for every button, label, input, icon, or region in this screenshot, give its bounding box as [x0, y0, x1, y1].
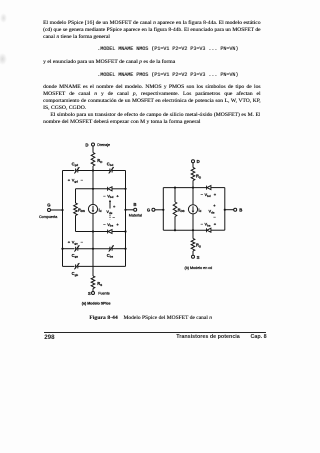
wire box to RS (right) [192, 230, 194, 238]
diode Dbs (bulk-source) [108, 230, 112, 234]
label -Vbd+ [103, 193, 119, 199]
wire box top line (right circuit) [163, 187, 225, 189]
svg-text:−: − [103, 193, 106, 198]
capacitor Cgs [72, 245, 80, 258]
capacitor Cgb [72, 263, 80, 277]
label Compuerta [39, 215, 58, 219]
svg-text:+: + [68, 178, 71, 183]
svg-text:Material: Material [129, 214, 142, 218]
paragraph line 2 [43, 27, 261, 34]
svg-text:RD: RD [97, 158, 102, 164]
svg-text:+: + [213, 203, 216, 208]
svg-text:+: + [68, 240, 71, 245]
paragraph line 9 [50, 112, 260, 119]
current source Id (left circuit) [88, 204, 101, 213]
node S (source terminal, left circuit) [88, 291, 95, 296]
wire d' down to current source [92, 171, 94, 205]
svg-text:−: − [214, 214, 217, 219]
label -Vbs+ (right) [201, 222, 217, 228]
svg-text:(a) Modelo SPice: (a) Modelo SPice [82, 301, 111, 305]
label -Vbs+ [103, 222, 119, 228]
svg-text:Cgs: Cgs [72, 253, 79, 259]
svg-text:Vbs: Vbs [205, 222, 211, 228]
svg-text:−: − [201, 192, 204, 197]
footer chapter [251, 334, 267, 341]
resistor RS (right circuit) [191, 239, 201, 252]
svg-text:−: − [81, 240, 84, 245]
wire current source to source node s' [92, 214, 94, 276]
footer page number 298 [44, 334, 54, 341]
diode Dbs (right circuit) [207, 228, 211, 232]
node D (drain terminal, right circuit) [192, 159, 200, 164]
wire inner left edge [75, 189, 77, 232]
scan smudge top-left [0, 13, 7, 23]
svg-text:S: S [197, 255, 200, 260]
svg-text:+: + [214, 192, 217, 197]
resistor RDS (right circuit) [173, 187, 184, 232]
terminal B (bulk, left circuit) [124, 202, 136, 211]
svg-text:G: G [147, 208, 151, 213]
wire box bottom line (right circuit) [163, 229, 225, 231]
caption (b) Modelo en cd [185, 266, 213, 270]
svg-text:Drenaje: Drenaje [97, 143, 110, 147]
terminal B (right circuit) [224, 208, 243, 213]
svg-text:+: + [214, 222, 217, 227]
svg-text:RS: RS [196, 243, 201, 249]
paragraph line 10 [43, 119, 200, 126]
wire D to RD (right) [192, 163, 194, 168]
svg-text:Cgb: Cgb [72, 271, 79, 277]
paragraph line 5 [43, 84, 261, 91]
wire bottom rail (source node s') [61, 248, 126, 250]
wire box left edge (right circuit) [162, 188, 164, 231]
svg-text:−: − [81, 178, 84, 183]
svg-text:S: S [88, 291, 91, 296]
svg-text:RD: RD [196, 174, 201, 180]
footer running title [176, 334, 240, 341]
svg-text:−: − [103, 222, 106, 227]
paragraph line 6 [43, 91, 261, 98]
paragraph line 7 [43, 98, 261, 105]
resistor RD (left circuit) [91, 153, 102, 167]
svg-text:Id: Id [198, 207, 201, 213]
wire D to RD [92, 146, 94, 153]
paragraph line 1 [43, 20, 261, 27]
wire box right edge (right circuit) [224, 188, 226, 231]
svg-text:Vgd: Vgd [72, 178, 78, 184]
wire RD to box (right) [192, 181, 194, 189]
svg-text:RDS: RDS [178, 207, 185, 213]
svg-text:RS: RS [97, 281, 102, 287]
label Fuente [98, 292, 109, 296]
svg-text:B: B [133, 202, 136, 207]
capacitor Cbd [107, 161, 114, 173]
svg-text:Vbs: Vbs [107, 222, 113, 228]
annotation Vds arrow (left circuit) [106, 200, 116, 220]
scan smudge mid-left [0, 53, 7, 65]
label +Vgd- [68, 178, 84, 184]
svg-text:G: G [47, 202, 51, 207]
svg-text:B: B [239, 208, 242, 213]
resistor RD (right circuit) [191, 168, 201, 181]
paragraph line 4 [43, 59, 175, 66]
node S (source terminal, right circuit) [192, 255, 200, 260]
footer rule [44, 332, 266, 333]
code line PMOS [97, 72, 238, 79]
annotation +Vds- (right circuit) [209, 203, 217, 220]
svg-text:Cbd: Cbd [107, 161, 114, 167]
label -Vbd+ (right) [201, 192, 217, 198]
svg-text:−: − [113, 215, 116, 220]
wire RD to top rail [92, 166, 94, 172]
wire RS to S (right) [192, 251, 194, 255]
diode Dbd (bulk-drain) [108, 187, 112, 191]
wire lower line G to B (via Cgb) [63, 265, 126, 267]
figure caption [89, 315, 117, 322]
svg-text:Vbd: Vbd [107, 193, 113, 199]
capacitor Cbs [107, 245, 114, 258]
svg-text:D: D [85, 142, 88, 147]
paragraph line 8 [43, 105, 86, 112]
svg-text:Vbd: Vbd [205, 192, 211, 198]
paragraph line 3 [43, 34, 110, 41]
svg-text:Cgd: Cgd [72, 161, 79, 167]
svg-text:RDS: RDS [78, 207, 85, 213]
wire inner top line (d' to B) [76, 188, 127, 190]
svg-text:Fuente: Fuente [98, 292, 109, 296]
resistor RS (left circuit) [91, 276, 102, 289]
label Material [129, 214, 142, 218]
wire right rail (bulk node B) [125, 171, 127, 267]
wire inner bottom line (s' to B) [76, 230, 127, 232]
label Drenaje [97, 143, 110, 147]
terminal G (gate, left circuit) [47, 202, 63, 211]
terminal G (right circuit) [147, 208, 165, 213]
wire RS to S [92, 289, 94, 292]
capacitor Cgd [72, 161, 80, 173]
wire top rail (drain node d') [63, 170, 126, 172]
svg-text:Id: Id [99, 207, 102, 213]
label +Vgs- [68, 240, 84, 246]
resistor RDS (left circuit) [74, 203, 85, 216]
svg-text:−: − [201, 222, 204, 227]
svg-text:+: + [113, 204, 116, 209]
svg-text:Vgs: Vgs [72, 240, 78, 246]
svg-text:+: + [116, 222, 119, 227]
caption (a) Modelo SPice [82, 301, 111, 305]
svg-text:Cbs: Cbs [107, 253, 114, 259]
svg-text:D: D [197, 159, 200, 164]
svg-text:(b) Modelo en cd: (b) Modelo en cd [185, 266, 213, 270]
node D (drain terminal, left circuit) [85, 142, 94, 147]
wire left rail (gate node G) [62, 171, 64, 267]
code line NMOS [97, 46, 238, 53]
current source Id (right circuit) [188, 188, 201, 232]
svg-text:+: + [116, 193, 119, 198]
svg-text:Compuerta: Compuerta [39, 215, 58, 219]
diode Dbd (right circuit) [207, 186, 211, 190]
